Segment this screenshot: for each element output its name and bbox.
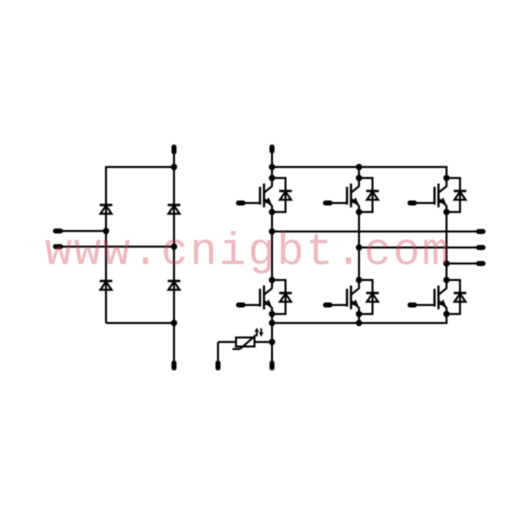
svg-text:www.cnigbt.com: www.cnigbt.com	[45, 227, 451, 278]
